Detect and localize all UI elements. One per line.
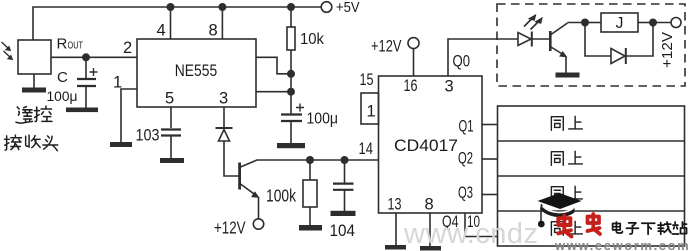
wire pin8 to rail — [221, 7, 223, 39]
svg-text:14: 14 — [359, 140, 374, 158]
svg-text:R: R — [57, 36, 68, 53]
ground bar pin1 — [110, 142, 132, 147]
svg-text:2: 2 — [123, 39, 132, 57]
junction dot stub upper — [287, 70, 295, 78]
phototransistor emitter — [551, 47, 566, 56]
label jieshoutou (receiver head) — [4, 135, 57, 151]
svg-text:4: 4 — [157, 22, 166, 40]
ground bar receiver — [22, 88, 46, 93]
label yaokong (remote control) — [16, 106, 52, 123]
relay channel rows table — [498, 106, 685, 246]
IR receiver box — [18, 40, 51, 74]
svg-text:CD4017: CD4017 — [394, 137, 458, 155]
junction dot relay node2 — [649, 19, 657, 27]
wire main node line y160 — [257, 159, 379, 161]
wire emitter to +12V terminal — [258, 197, 260, 219]
wire pin8 to ground — [429, 213, 431, 246]
logo cap body — [540, 204, 575, 218]
svg-text:16: 16 — [404, 77, 418, 95]
wire 100u right to ground — [290, 122, 292, 143]
wire collector to node1 — [568, 22, 586, 24]
svg-text:+12V: +12V — [659, 32, 676, 68]
NE555 right pin stub lower — [256, 91, 288, 93]
label tongshang row2 (same as above) — [551, 151, 582, 165]
svg-text:1: 1 — [113, 74, 122, 92]
svg-text:+5V: +5V — [336, 0, 360, 16]
flyback diode triangle — [611, 49, 625, 64]
ground bar 100u right — [277, 143, 305, 148]
junction dot receiver output — [82, 53, 90, 61]
svg-text:+12V: +12V — [214, 218, 246, 238]
+12V terminal circle (pin16) — [408, 38, 419, 49]
wire relay J to node2 — [638, 22, 653, 24]
svg-text:8: 8 — [209, 22, 218, 40]
junction dot relay node1 — [581, 19, 589, 27]
junction dot 104 node — [341, 156, 349, 164]
label tongshang row3 (same as above) — [551, 186, 582, 200]
optocoupler LED cathode bar — [531, 32, 533, 47]
+5V terminal circle — [321, 2, 332, 13]
svg-text:1: 1 — [367, 103, 376, 121]
resistor 1 box on pin15 — [361, 93, 379, 124]
ground bar pin13 — [385, 245, 406, 250]
ground bar pin8 — [420, 246, 441, 251]
wire 100k bottom — [309, 207, 311, 225]
ground bar phototransistor — [556, 73, 580, 78]
wire receiver to ground — [33, 74, 35, 88]
capacitor 103 plates — [161, 130, 181, 136]
wire receiver output to NE555 pin2 — [51, 56, 137, 58]
wire Q3 output — [482, 194, 498, 196]
capacitor 100u right plates — [281, 115, 302, 122]
svg-text:10k: 10k — [300, 31, 324, 48]
svg-text:Q1: Q1 — [459, 118, 474, 136]
wire LED to phototransistor — [532, 38, 549, 40]
dashed relay unit box — [497, 4, 685, 86]
svg-text:www.cndz: www.cndz — [403, 218, 539, 250]
wire 10k to rail — [290, 7, 292, 27]
label tongshang row1 (same as above) — [551, 116, 582, 130]
wire 103 cap to ground — [170, 137, 172, 159]
CD4017 U2 box — [379, 76, 483, 213]
wire 100k top — [309, 160, 311, 180]
logo dianzi xiazai zhan text — [613, 222, 687, 234]
transistor Q1 emitter arrowhead — [252, 192, 259, 198]
wire Q2 output — [482, 158, 498, 160]
svg-text:13: 13 — [388, 196, 402, 214]
wire node1 down to flyback diode — [585, 23, 611, 57]
ground bar capacitor C — [66, 108, 98, 113]
wire NE555 pin3 to diode — [223, 107, 225, 127]
diode D1 cathode bar — [216, 127, 233, 129]
transistor Q1 base bar — [238, 163, 241, 190]
logo tassel — [540, 211, 542, 221]
wire 10k down through nodes to cap — [290, 50, 292, 114]
svg-text:NE555: NE555 — [175, 62, 218, 80]
relay J coil box — [601, 13, 638, 32]
wire +5V supply rail — [33, 7, 322, 40]
wire emitter to ground — [565, 57, 567, 73]
svg-text:Q2: Q2 — [458, 150, 473, 168]
svg-text:104: 104 — [330, 222, 356, 240]
svg-text:3: 3 — [445, 78, 454, 96]
wire pin13 to ground — [395, 213, 397, 245]
IR incoming light arrows — [2, 42, 12, 58]
transistor Q1 collector — [241, 160, 258, 167]
transistor Q1 emitter — [241, 184, 258, 197]
logo chongchong red — [558, 214, 600, 237]
capacitor C plates — [77, 79, 96, 86]
ground bar 100k — [299, 225, 322, 231]
+12V terminal circle (relay) — [671, 18, 681, 28]
phototransistor base bar — [549, 31, 552, 51]
wire pin3 Q0 riser — [448, 39, 518, 76]
capacitor 104 wires — [344, 160, 346, 211]
junction dot rail pin4 — [167, 3, 175, 11]
svg-text:3: 3 — [219, 90, 228, 108]
phototransistor collector — [551, 23, 568, 35]
wire NE555 pin5 to 103 cap — [170, 107, 172, 128]
svg-text:+12V: +12V — [371, 37, 402, 56]
svg-text:100k: 100k — [266, 186, 296, 206]
svg-text:C: C — [57, 69, 68, 86]
svg-text:8: 8 — [425, 196, 434, 214]
svg-text:OUT: OUT — [68, 39, 84, 51]
svg-text:100μ: 100μ — [47, 88, 78, 104]
capacitor 100u right plus — [296, 104, 304, 112]
logo graduation cap board — [538, 193, 582, 209]
resistor 100k body — [303, 180, 317, 207]
wire node2 down to flyback diode — [626, 23, 653, 57]
optocoupler LED triangle — [518, 33, 531, 46]
label tongshang row4 (same as above) — [551, 221, 582, 235]
wire NE555 pin1 to ground — [121, 89, 137, 142]
wire pin4 to rail — [170, 7, 172, 39]
+12V terminal circle (emitter) — [253, 219, 263, 229]
resistor 10k body — [287, 27, 295, 50]
wire diode to transistor base — [224, 141, 239, 176]
NE555 U1 box — [137, 39, 256, 107]
junction dot stub lower — [287, 88, 295, 96]
ground bar 104 — [331, 211, 356, 216]
ground bar 103 — [160, 158, 184, 163]
diode D1 triangle — [219, 130, 230, 142]
wire pin10 Q4 output — [465, 213, 498, 237]
wire node2 to +12V terminal — [653, 22, 671, 24]
LED emission arrows — [524, 17, 540, 30]
capacitor 104 plates — [333, 184, 354, 190]
svg-text:Q0: Q0 — [453, 53, 471, 71]
junction dot rail pin8 — [218, 3, 226, 11]
NE555 right pin stub upper — [256, 57, 288, 74]
wire +12V terminal to pin16 — [413, 49, 415, 76]
wire node1 to relay J — [585, 22, 601, 24]
svg-text:www.eeworm.com: www.eeworm.com — [554, 238, 689, 251]
svg-text:15: 15 — [360, 71, 374, 89]
junction dot rail 10k — [287, 3, 295, 11]
wire Q1 output — [482, 124, 498, 126]
svg-text:J: J — [616, 15, 624, 32]
phototransistor emitter arrowhead — [560, 52, 567, 57]
svg-text:5: 5 — [165, 90, 174, 108]
capacitor C 100u wires — [85, 57, 87, 107]
logo cap white band — [543, 206, 574, 213]
junction dot 100k node — [306, 156, 314, 164]
flyback diode cathode bar — [625, 48, 627, 64]
svg-text:103: 103 — [136, 127, 160, 145]
svg-text:Q3: Q3 — [458, 184, 473, 202]
capacitor C plus sign — [90, 68, 98, 76]
svg-text:100μ: 100μ — [307, 111, 339, 128]
